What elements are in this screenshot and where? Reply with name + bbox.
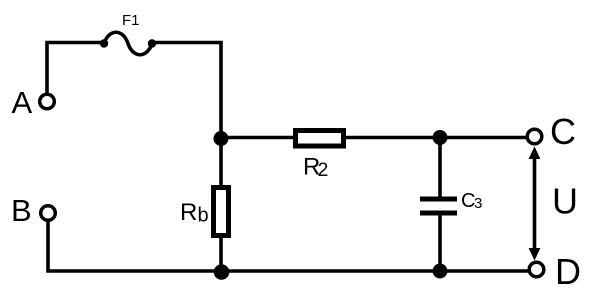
svg-text:A: A [12, 85, 33, 120]
wire Rb to node 3 [219, 235, 223, 271]
junction node 3 [214, 264, 230, 280]
resistor R2 [296, 131, 344, 147]
label C3 [461, 190, 482, 212]
terminal A [40, 94, 55, 109]
resistor Rb [214, 188, 229, 236]
wire node 2 down to C3 [438, 137, 442, 197]
terminal B [41, 206, 56, 221]
svg-text:D: D [555, 251, 581, 292]
svg-text:2: 2 [318, 159, 329, 181]
svg-text:C: C [550, 111, 576, 152]
terminal C [527, 129, 542, 144]
junction node 4 [433, 264, 448, 279]
wire fuse right to top corner down to node 1 [151, 43, 221, 138]
wire terminal B down and right along bottom to terminal D [48, 221, 528, 271]
junction node 2 [433, 130, 448, 145]
voltage arrow U between C and D [529, 147, 541, 261]
wire A terminal up and right to fuse [47, 43, 105, 93]
wire node 1 to R2 [221, 136, 295, 140]
svg-text:b: b [198, 205, 209, 227]
svg-text:B: B [11, 193, 32, 228]
wire node 1 down to Rb [219, 137, 223, 187]
junction node 1 [214, 131, 229, 146]
label R2 [303, 154, 328, 182]
label Rb [180, 199, 209, 227]
wire R2 to node 2 to terminal C [346, 136, 528, 140]
svg-text:F1: F1 [122, 12, 140, 29]
svg-text:3: 3 [474, 195, 482, 212]
terminal D [529, 262, 544, 277]
wire C3 down to node 4 [438, 215, 442, 271]
svg-text:R: R [180, 199, 197, 226]
capacitor C3 [420, 199, 457, 213]
svg-text:U: U [552, 181, 578, 222]
fuse F1 [100, 32, 156, 55]
